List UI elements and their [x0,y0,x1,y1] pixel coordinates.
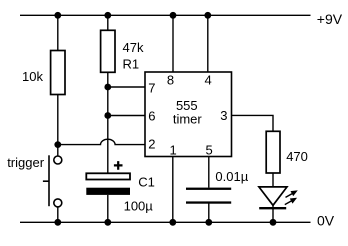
IC 555 timer box [145,72,232,157]
svg-text:4: 4 [205,72,212,87]
resistor 470 [266,131,280,173]
capacitor C1 negative plate [86,188,130,195]
resistor R1 47k [101,30,115,72]
wire top supply rail [20,14,311,16]
wire LED to bottom rail [272,206,274,223]
svg-text:timer: timer [173,112,203,127]
wire 470 resistor to LED [272,173,274,187]
svg-text:100µ: 100µ [124,198,154,213]
svg-text:+9V: +9V [317,11,343,27]
wire 0.01u cap to bottom rail [208,204,210,223]
wire rail to R1 [107,15,109,30]
svg-text:0.01µ: 0.01µ [215,169,248,184]
svg-text:2: 2 [148,137,155,152]
wire pin 1 to bottom rail [172,157,174,223]
switch terminal upper circle [54,156,62,164]
LED emission arrow lower [285,201,292,205]
svg-text:1: 1 [170,143,177,158]
node bottom rail / switch [54,219,61,226]
svg-text:0V: 0V [317,213,335,229]
wire bottom 0V rail [20,221,311,223]
wire pin 2 with hop over vertical wire [58,139,145,144]
switch terminal lower circle [54,199,62,207]
wire R1 bottom down to C1 [107,72,109,173]
node top rail / pin 4 [204,12,211,19]
svg-text:47k: 47k [123,40,144,55]
svg-text:470: 470 [286,149,308,164]
wire pin 5 to 0.01u cap [208,157,210,188]
node bottom rail / LED [270,219,277,226]
svg-text:7: 7 [148,81,155,96]
svg-text:8: 8 [167,72,174,87]
node bottom rail / C1 [104,219,111,226]
svg-text:3: 3 [220,108,227,123]
wire pin 3 to 470 resistor [232,115,274,131]
LED anode triangle [259,187,287,205]
wire pin 6 [108,115,145,117]
node trigger / pin 2 [54,141,61,148]
wire C1 bottom to rail [107,195,109,222]
wire left branch upper (rail to 10k) [57,15,59,50]
node junction dots [54,12,276,226]
wire switch to bottom rail [57,207,59,222]
switch contact bar [48,155,50,206]
wire pin 4 to rail [207,15,209,72]
node top rail / R1 [104,12,111,19]
svg-text:5: 5 [206,143,213,158]
node bottom rail / pin 1 [169,219,176,226]
svg-text:6: 6 [148,109,155,124]
node R1 / pin 7 [104,84,111,91]
node top rail / 10k [54,12,61,19]
capacitor C1 positive plate [86,173,130,179]
wire pin 7 [108,86,145,88]
LED emission arrow upper [286,194,293,198]
svg-text:R1: R1 [123,56,140,71]
svg-text:C1: C1 [138,175,155,190]
wire 10k to trigger node and switch [57,95,59,157]
resistor 10k [51,51,65,95]
svg-text:10k: 10k [22,69,43,84]
C1 polarity plus sign [114,161,123,170]
node top rail / pin 8 [170,12,177,19]
capacitor 0.01u top plate [186,188,231,190]
capacitor 0.01u bottom plate [186,201,231,203]
node R1 / pin 6 [104,112,111,119]
node bottom rail / 0.01u [205,219,212,226]
svg-text:trigger: trigger [7,155,45,170]
switch actuator stem [43,180,49,182]
LED cathode bar [259,207,286,209]
wire pin 8 to rail [172,15,174,72]
